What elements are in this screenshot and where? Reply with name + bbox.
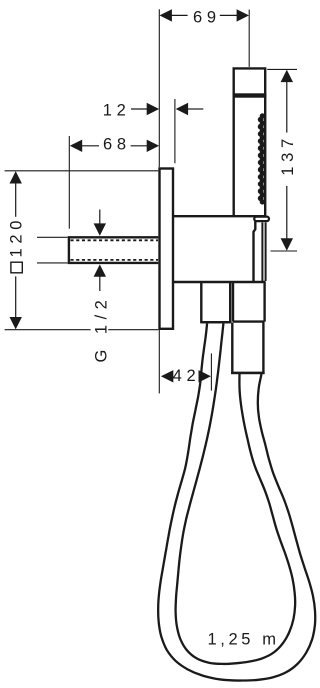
arrow 12 right (points left at plate right face) [176,103,188,115]
arrow 68 left [70,140,82,152]
svg-text:12: 12 [103,102,131,120]
dimension 12 line left tail [131,108,148,110]
pipe thin stub line top (left of pipe) [37,236,68,238]
wire wall extension line (left face of plate, vertical) [158,9,160,167]
wire wall extension line below plate (42 dim left extension) [158,330,160,393]
wall plate escutcheon (side view) [160,169,174,329]
svg-text:120: 120 [8,216,26,258]
arrow G1/2 down (points at pipe top) [94,223,106,235]
dimension 69 extension line right (above handshower) [248,10,250,67]
arrow G1/2 up (points at pipe bottom) [94,264,106,276]
dimension 137 line lower segment [286,186,288,239]
svg-text:1,25 m: 1,25 m [208,631,280,649]
pipe thin stub line bottom (left of pipe) [37,262,68,264]
arrow 42 right [199,370,211,382]
dimension 137 extension line bottom [271,250,298,252]
arrow 12 left (points right at wall line) [147,103,159,115]
dimension 120 line lower segment [15,276,17,318]
dimension 137 extension line top [267,68,297,70]
arrow 69 right [237,9,249,21]
dimension 68 extension line left (pipe end) [68,136,70,229]
pipe thread dashes top [71,239,159,241]
arrow 68 right [147,140,159,152]
arrow 120 up [10,171,22,183]
handshower cone right wall [265,223,267,282]
handshower grip band [233,93,267,97]
handshower handle outline [234,68,266,216]
handshower spray texture dots [258,113,265,204]
dimension 68 line left segment [81,145,99,147]
handshower cone left wall [261,223,263,282]
dimension 12 extension line (right face of plate) [174,99,176,163]
pipe G1/2 threaded inlet outline [69,237,158,263]
svg-text:G 1/2: G 1/2 [92,295,110,363]
pipe thread dashes bottom [71,259,159,261]
holder body right edge with chamfer [254,222,256,282]
holder hook tab (rounded) [254,217,269,222]
arrow 120 down [10,317,22,329]
dimension 68 line right segment [131,145,148,147]
dimension 12 right tail [188,108,203,110]
svg-text:42: 42 [173,367,201,385]
dimension 120 extension line top [5,170,159,172]
hose nut bottom edge [231,372,265,374]
holder body top edge [173,215,265,217]
arrow 137 up [281,70,293,82]
arrow 42 left [161,370,173,382]
svg-text:137: 137 [279,134,297,176]
svg-text:69: 69 [193,8,221,26]
dimension 120 extension line bottom left segment [5,329,91,331]
nipple bottom edge [200,321,231,323]
hose outer wall (left down, loop, right up) [158,324,315,681]
handshower cone lower section [233,282,265,322]
hose outlet nipple below body [201,282,230,322]
hose nut on handshower [232,323,263,373]
leader G1/2 lower line [99,276,101,291]
leader G1/2 upper line [99,210,101,227]
arrow 137 down [281,238,293,250]
dimension 69 line right segment [220,14,238,16]
dimension 120 line upper segment [15,183,17,217]
svg-text:68: 68 [103,135,131,153]
dimension 120 extension line bottom right segment [108,329,158,331]
dimension 42 extension line right [210,353,212,390]
arrow 69 left [160,9,172,21]
label square symbol for 120 [11,262,22,273]
hose inner wall (left down, loop, right up) [176,324,296,664]
dimension 137 line upper segment [286,81,288,133]
holder body bottom edge (combined with cone top) [173,281,266,283]
dimension 69 line left segment [171,14,188,16]
